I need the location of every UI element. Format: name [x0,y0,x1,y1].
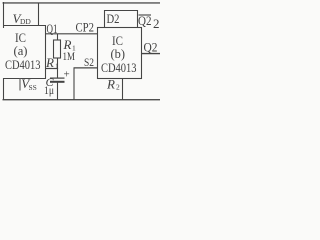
svg-text:Q1: Q1 [47,22,58,36]
svg-text:+: + [64,68,70,80]
svg-text:(a): (a) [14,43,28,58]
wire: left edge top segment [3,2,5,28]
svg-text:DD: DD [20,17,31,26]
wire: VDD pin of IC a to top rail [38,3,40,25]
flip-flop U1: IC (a) CD4013 box (left edge cropped) [3,26,46,79]
svg-text:Q2: Q2 [144,41,158,55]
svg-text:CD4013: CD4013 [101,60,137,75]
capacitor C 1u electrolytic [57,69,59,78]
svg-text:CP2: CP2 [76,21,95,35]
svg-text:Q2: Q2 [138,14,152,28]
svg-text:2: 2 [116,83,120,92]
wire: top VDD supply rail [3,2,161,3]
wire: S2 ground drop at x=74 [73,68,75,100]
wire: Q2bar to D2 feedback loop [105,11,138,28]
svg-text:1μ: 1μ [44,83,54,97]
svg-text:D2: D2 [107,12,120,26]
svg-text:(b): (b) [111,46,126,61]
wire: Q1 output of IC a to CP2 input of IC b [46,33,98,35]
wire: R2 pin of IC b to bottom rail [122,78,124,100]
svg-text:SS: SS [29,83,37,92]
wire: bottom VSS supply rail [3,99,161,100]
wire: S2 pin of IC b to bottom rail, horizontal run [74,67,98,69]
svg-text:R: R [106,77,115,92]
resistor R1 1M [57,34,59,40]
svg-text:S2: S2 [84,55,94,69]
svg-text:R: R [45,55,54,70]
wire: left edge bottom segment [3,78,5,100]
wire: Q2 output of IC b [142,53,161,55]
flip-flop U2: IC (b) CD4013 box [98,28,142,79]
wire: VSS pin of IC a [19,78,21,91]
svg-text:1M: 1M [63,49,76,63]
svg-text:2: 2 [153,16,160,31]
wire: R1 pin of IC a to RC node [46,68,59,70]
svg-text:CD4013: CD4013 [5,57,41,72]
